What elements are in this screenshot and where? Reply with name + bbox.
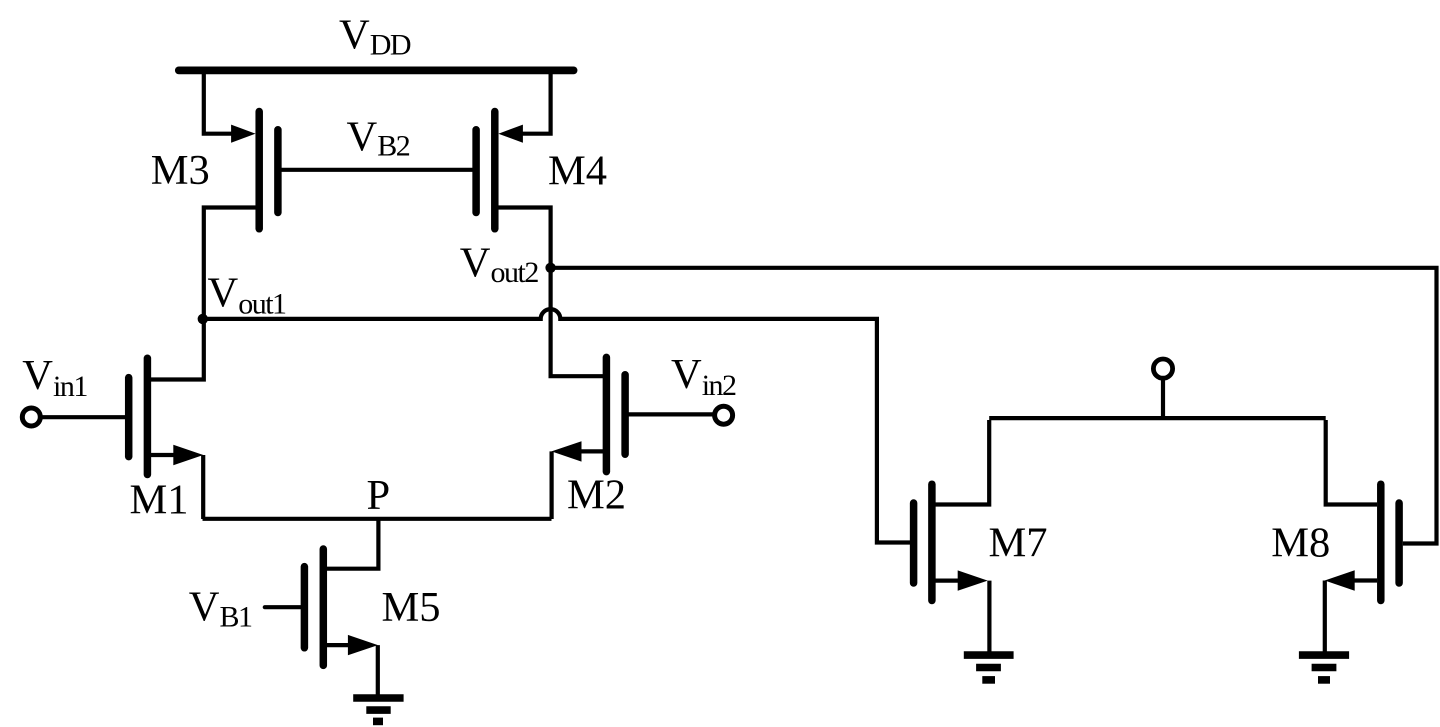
- label M2: [567, 471, 626, 518]
- wire M5 source with down leg to ground: [327, 645, 378, 695]
- transistor M1 channel bar: [144, 358, 152, 474]
- svg-text:Vin1: Vin1: [22, 352, 87, 403]
- label M3: [151, 147, 210, 194]
- transistor M8 gate bar: [1395, 503, 1403, 583]
- node Vout2 dot: [545, 263, 555, 273]
- svg-text:Vout1: Vout1: [208, 270, 287, 321]
- arrow M2 source (points left away from bar): [552, 441, 582, 461]
- wire M7 source with down leg to ground: [936, 581, 990, 652]
- label VDD: [339, 11, 411, 61]
- arrow M7 source (points right away from bar): [958, 570, 988, 590]
- wire M2 gate: [629, 412, 714, 416]
- wire tail P to M5 drain: [327, 519, 379, 569]
- label Vin2: [671, 351, 736, 402]
- svg-text:M1: M1: [130, 477, 189, 524]
- wire M4 source drop from VDD: [521, 68, 551, 134]
- svg-text:M2: M2: [567, 471, 626, 518]
- terminal Vin1 circle: [22, 408, 40, 426]
- transistor M7 gate bar: [910, 503, 918, 583]
- transistor M4 channel bar: [491, 112, 499, 229]
- ground below M5: [353, 694, 403, 702]
- wire M8 drain up to rail: [1326, 420, 1377, 505]
- svg-text:M7: M7: [989, 520, 1048, 567]
- svg-text:M5: M5: [382, 584, 441, 631]
- transistor M2 channel bar: [603, 357, 611, 471]
- wire M3 drain to node Vout1 to M1 drain: [151, 208, 256, 380]
- svg-text:M3: M3: [151, 147, 210, 194]
- ground below M8: [1299, 651, 1349, 659]
- svg-text:VB2: VB2: [347, 114, 410, 163]
- wire Vout2 net to right edge and down to M8 gate: [551, 268, 1437, 544]
- transistor M8 channel bar: [1377, 484, 1385, 600]
- wire M2 source with down leg to P rail: [552, 451, 604, 519]
- transistor M1 gate bar: [125, 378, 133, 457]
- svg-text:Vout2: Vout2: [460, 239, 539, 289]
- wire M4 drain down through node Vout2 to M2 drain: [499, 208, 604, 377]
- wire M7/M8 top rail: [989, 416, 1325, 420]
- terminal Vin2 circle: [715, 406, 733, 424]
- arrow M5 source (points right away from bar): [348, 635, 378, 655]
- transistor M2 gate bar: [621, 375, 629, 454]
- transistor M5 gate bar: [301, 567, 309, 648]
- ground below M7: [964, 651, 1014, 659]
- wire M1 gate: [42, 415, 125, 419]
- label Vout2: [460, 239, 539, 289]
- label Vout1: [208, 270, 287, 321]
- arrow M1 source (points right away from bar): [173, 445, 203, 465]
- arrow M3 source (points right into bar): [231, 125, 256, 143]
- label Vin1: [22, 352, 87, 403]
- arrow M8 source (points left away from bar): [1325, 570, 1355, 590]
- label VB2: [347, 114, 410, 163]
- wire M1 source with down leg to P rail: [151, 455, 203, 519]
- svg-text:M4: M4: [548, 147, 607, 194]
- wire stub circle to rail: [1161, 379, 1165, 418]
- wire Vout1 net with hop over M4 drain line, to M7 gate: [203, 309, 910, 542]
- terminal circle top of M7/M8 rail: [1153, 359, 1172, 378]
- wire M3 source drop from VDD: [204, 68, 233, 134]
- svg-text:VB1: VB1: [189, 584, 252, 634]
- svg-text:P: P: [367, 472, 391, 519]
- transistor M7 channel bar: [928, 484, 936, 600]
- node Vout1 dot: [198, 314, 208, 324]
- wire M7 drain up to rail: [936, 420, 990, 505]
- label VB1: [189, 584, 252, 634]
- svg-text:Vin2: Vin2: [671, 351, 736, 402]
- wire M8 source with down leg to ground: [1325, 581, 1377, 653]
- transistor M4 gate bar: [472, 130, 480, 213]
- transistor M5 channel bar: [320, 549, 328, 665]
- VDD rail: [179, 67, 574, 75]
- arrow M4 source (points left into bar): [498, 125, 523, 143]
- label P: [367, 472, 391, 519]
- label M8: [1271, 520, 1330, 567]
- wire P rail: [203, 517, 552, 521]
- svg-text:VDD: VDD: [339, 11, 411, 61]
- wire VB2 gate line M3-M4: [282, 168, 475, 172]
- transistor M3 gate bar: [274, 130, 282, 213]
- wire M5 gate stub: [265, 605, 301, 609]
- label M1: [130, 477, 189, 524]
- label M7: [989, 520, 1048, 567]
- svg-text:M8: M8: [1271, 520, 1330, 567]
- transistor M3 channel bar: [255, 112, 263, 229]
- label M4: [548, 147, 607, 194]
- label M5: [382, 584, 441, 631]
